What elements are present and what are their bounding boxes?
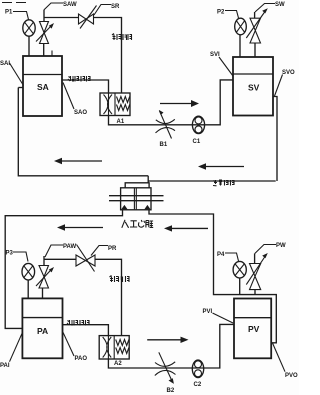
wire SVO down to return loop: [273, 97, 277, 182]
gauge P3 label: [6, 251, 29, 262]
svg-text:SAI: SAI: [0, 61, 10, 67]
svg-text:PVI: PVI: [203, 309, 213, 315]
svg-text:B1: B1: [160, 142, 168, 148]
gauge P1: [23, 20, 35, 36]
wire SA liquid out to A1: [62, 80, 109, 93]
wire SAW junction to valve SR: [44, 17, 79, 19]
flow arrow left (loop upper-right): [198, 163, 244, 169]
label PAI: [0, 332, 23, 369]
gauge P1 label: [5, 10, 29, 20]
tank SV: [233, 57, 273, 116]
flow arrow right (top loop): [160, 100, 199, 107]
valve PR label: [91, 246, 117, 256]
svg-text:B2: B2: [167, 388, 175, 394]
svg-text:SA: SA: [37, 82, 49, 92]
flow meter C2: [192, 360, 203, 378]
svg-text:C2: C2: [194, 382, 202, 388]
svg-text:SAO: SAO: [74, 110, 87, 116]
heart top riser: [147, 176, 149, 183]
svg-text:PVO: PVO: [285, 373, 298, 379]
wire PR to gas flow tube (down to A2): [95, 259, 122, 335]
svg-text:A2: A2: [114, 361, 122, 367]
valve SAW: [36, 10, 54, 56]
svg-text:SW: SW: [275, 2, 285, 8]
valve PW: [246, 253, 267, 295]
tank SA: [23, 56, 62, 116]
label SVI: [210, 52, 233, 76]
heart body: [121, 188, 151, 210]
valve PAW label: [45, 244, 77, 257]
label PVI: [203, 309, 234, 323]
label liquid-flow-tube (bottom): [67, 320, 90, 326]
svg-text:PAI: PAI: [0, 363, 10, 369]
wire PAW junction to valve PR: [44, 258, 76, 260]
valve SW label: [255, 2, 285, 12]
wire gauge P2 to tank SV top: [239, 35, 241, 57]
flow arrow left (heart left): [57, 224, 103, 230]
valve SR label: [94, 4, 120, 15]
border dash top-left: [2, 2, 26, 4]
svg-text:P3: P3: [6, 251, 14, 257]
gauge P2 label: [217, 10, 239, 19]
wire gauge P4 to PV manifold: [239, 278, 241, 295]
label SAI: [0, 61, 24, 86]
svg-text:PAO: PAO: [75, 356, 88, 362]
svg-text:C1: C1: [193, 139, 201, 145]
heart cannula tubes: [109, 196, 164, 201]
svg-text:PA: PA: [37, 326, 48, 336]
svg-text:P2: P2: [217, 10, 225, 16]
svg-text:PAW: PAW: [63, 244, 77, 250]
flow meter C1: [192, 116, 204, 133]
wire heart right port down to PV manifold: [149, 210, 276, 343]
svg-text:A1: A1: [117, 119, 125, 125]
throttle valve B2: [155, 352, 176, 384]
artificial heart assembly: [109, 176, 164, 210]
gauge P2: [235, 18, 247, 35]
pilot valve A2: [99, 336, 129, 359]
svg-text:SVI: SVI: [210, 52, 220, 58]
svg-text:PW: PW: [276, 243, 286, 249]
tank PA: [22, 298, 62, 358]
svg-text:SV: SV: [248, 83, 260, 93]
label gas-flow-tube (bottom): [110, 276, 130, 283]
stub on tank SA top: [51, 51, 53, 57]
label SAO: [63, 83, 87, 117]
wire A2 out to B2 C2 and up to PV: [108, 324, 234, 368]
label artificial-heart (ren gong xin zang): [122, 220, 153, 228]
label connecting-glass-tube: [213, 180, 235, 186]
svg-text:PV: PV: [248, 324, 260, 334]
wire A1 out to B1 C1 and up to SV: [109, 80, 234, 125]
flow arrow left (loop upper-left): [54, 158, 102, 164]
valve PR: [76, 245, 95, 272]
label PVO: [273, 343, 299, 379]
gauge P4 label: [217, 252, 239, 261]
valve SR: [79, 6, 97, 29]
flow arrow right (bottom loop): [147, 337, 188, 343]
valve PAW: [36, 256, 54, 298]
svg-text:P4: P4: [217, 252, 225, 258]
wire gauge P1 to tank SA top: [28, 36, 30, 56]
heart top bracket: [125, 183, 149, 188]
heart foot left: [121, 205, 127, 210]
label PAO: [63, 332, 87, 362]
valve SAW label: [44, 2, 77, 10]
return loop right segment: [148, 180, 276, 182]
wire heart left port down to tank PA: [5, 210, 122, 329]
heart foot right: [144, 205, 150, 210]
valve SW: [246, 8, 267, 57]
svg-text:P1: P1: [5, 10, 13, 16]
svg-text:SR: SR: [111, 4, 120, 10]
wire gauge P3 to tank PA top: [27, 280, 29, 298]
label gas-flow-tube (top): [112, 34, 132, 41]
gauge P3: [22, 263, 35, 280]
pilot valve A1: [100, 93, 130, 116]
throttle valve B1: [156, 110, 176, 139]
svg-text:SAW: SAW: [63, 2, 77, 8]
heart membrane: [134, 188, 136, 209]
tank PV: [234, 299, 271, 359]
wire SR to gas flow tube (down to A1): [94, 18, 122, 94]
gauge P4: [233, 261, 246, 278]
label SVO: [275, 70, 296, 96]
valve PW label: [255, 243, 286, 254]
return loop left segment to heart riser: [18, 88, 148, 176]
flow arrow left (heart right): [164, 225, 208, 231]
svg-text:PR: PR: [108, 246, 117, 252]
label liquid-flow-tube (top): [68, 76, 91, 82]
wire PA liquid out to A2: [63, 325, 109, 336]
wire SAI port: [18, 87, 23, 89]
svg-text:SVO: SVO: [282, 70, 295, 76]
